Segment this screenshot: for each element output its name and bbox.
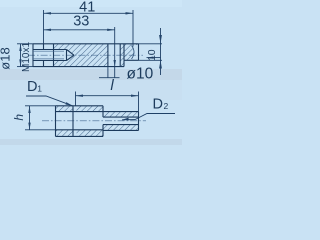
svg-text:M10x1: M10x1 bbox=[21, 42, 32, 72]
svg-text:33: 33 bbox=[73, 13, 89, 29]
svg-text:1: 1 bbox=[37, 84, 42, 94]
svg-text:ø10: ø10 bbox=[127, 66, 154, 83]
svg-text:h: h bbox=[12, 114, 26, 121]
svg-text:D: D bbox=[153, 96, 163, 112]
svg-text:D: D bbox=[27, 79, 37, 95]
svg-text:2: 2 bbox=[164, 101, 169, 111]
svg-text:ø18: ø18 bbox=[0, 47, 13, 69]
svg-text:10: 10 bbox=[146, 49, 158, 61]
